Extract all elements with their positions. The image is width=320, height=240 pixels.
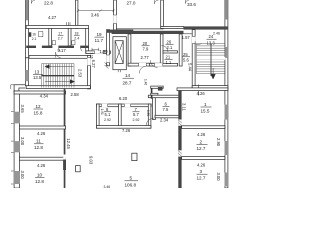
room 20 right wall — [160, 34, 163, 66]
door break corridor west wall — [63, 155, 66, 160]
window room 10 left — [14, 171, 21, 184]
wall right of small rooms row — [86, 28, 89, 53]
door gap room 19 — [95, 51, 104, 54]
wall right of elevator (left wall of room 20) — [128, 34, 131, 66]
rooms 8/7 bottom wall — [97, 126, 151, 129]
wall bottom of room 33.6 thick dark part — [184, 26, 228, 29]
right staircase entry tick below — [198, 85, 200, 96]
door gap small room 1 — [36, 45, 42, 48]
door arc corridor into room 6 — [146, 118, 154, 126]
svg-text:15.8: 15.8 — [34, 110, 43, 115]
svg-text:25: 25 — [183, 52, 188, 57]
svg-text:13.5: 13.5 — [33, 75, 42, 80]
svg-text:11.7: 11.7 — [95, 38, 104, 43]
wall between rooms 27.0 and 33.6 — [161, 0, 164, 26]
wall between rooms 11 and 10 — [19, 157, 65, 160]
room 6 left wall — [153, 95, 156, 119]
window room 2 right — [225, 141, 229, 155]
window room 12 left — [14, 112, 21, 124]
partition between 8 and 7 — [119, 104, 122, 128]
svg-text:27.0: 27.0 — [127, 1, 136, 6]
elevator shaft inner X box — [115, 41, 123, 64]
door gap corridor wall at room 2 — [178, 120, 181, 126]
svg-text:17: 17 — [58, 32, 62, 36]
staircase left: top wall — [29, 56, 91, 59]
svg-text:1.57: 1.57 — [182, 35, 191, 40]
svg-text:20: 20 — [143, 41, 148, 46]
svg-text:4.27: 4.27 — [48, 15, 57, 20]
elevator lobby wall left — [107, 30, 110, 66]
svg-text:12: 12 — [36, 104, 42, 109]
svg-text:16: 16 — [32, 33, 36, 37]
vent ticks on wall top — [67, 22, 71, 25]
tick outside left step — [11, 85, 14, 89]
stair center divider left staircase — [42, 75, 75, 77]
rooms 8 and 7 block: top wall — [97, 104, 152, 107]
svg-text:3.65: 3.65 — [20, 105, 25, 114]
door arc into staircase — [56, 52, 61, 57]
column square in corridor center — [132, 153, 137, 160]
svg-text:5.7: 5.7 — [133, 112, 139, 117]
svg-text:12.8: 12.8 — [34, 145, 43, 150]
wall below room 27 thin top leaf — [116, 28, 163, 30]
hallway wall between hall and right staircase — [192, 30, 195, 91]
room 1 top wall — [177, 88, 228, 91]
corridor east wall (left wall of rooms 1 2 3, dark) — [178, 89, 181, 189]
wall right exterior (hollow) — [225, 0, 228, 188]
rooms 8/7 left wall — [97, 104, 100, 128]
wall between rooms 1 and 2 — [182, 126, 225, 129]
window sill ticks room 10 — [11, 171, 14, 184]
svg-text:1.46: 1.46 — [143, 79, 147, 85]
svg-text:22.8: 22.8 — [44, 0, 53, 5]
svg-text:3.00: 3.00 — [20, 137, 25, 146]
svg-text:11: 11 — [36, 139, 41, 144]
door gap room 7 top — [124, 104, 130, 107]
door tick small room 2 — [58, 48, 60, 51]
svg-text:6.27: 6.27 — [91, 60, 96, 69]
svg-text:14: 14 — [125, 73, 131, 78]
svg-text:2.58: 2.58 — [71, 92, 80, 97]
stair arrow lower flight — [45, 81, 70, 83]
door tick small room 3 — [80, 48, 82, 51]
svg-text:7.9: 7.9 — [143, 46, 149, 51]
svg-text:21: 21 — [166, 54, 171, 59]
staircase left: right wall — [88, 56, 91, 89]
door arc hall into 21 — [150, 60, 157, 67]
svg-text:2.1: 2.1 — [167, 45, 173, 50]
svg-text:6.20: 6.20 — [119, 96, 128, 101]
svg-text:1.16: 1.16 — [89, 52, 93, 58]
small shaft structure in hall — [151, 86, 153, 99]
wall left exterior staircase part — [25, 58, 28, 86]
svg-text:2.90: 2.90 — [216, 138, 221, 147]
right staircase treads — [197, 44, 225, 74]
wall between room 19 and 27.0 — [114, 0, 117, 30]
window sill ticks room 12 — [11, 112, 14, 124]
room 20 bottom wall — [128, 63, 163, 66]
svg-text:19: 19 — [97, 32, 103, 37]
door swing top left room 22.8 — [32, 0, 36, 4]
door gap small room 2 — [52, 45, 58, 48]
staircase left: bottom wall — [26, 86, 90, 89]
fixture small room 2 — [52, 41, 55, 45]
wall below room 19 — [86, 51, 111, 54]
right staircase bottom wall — [192, 86, 228, 89]
svg-text:13.3: 13.3 — [207, 40, 216, 45]
svg-text:10: 10 — [37, 172, 43, 177]
window room 11 left — [14, 141, 21, 152]
partition b — [49, 28, 52, 45]
svg-text:9.03: 9.03 — [89, 156, 94, 165]
svg-text:106.8: 106.8 — [125, 182, 137, 187]
step out ledge at left — [14, 85, 25, 92]
svg-text:2.92: 2.92 — [133, 118, 140, 122]
door gap room 8 top — [102, 104, 108, 107]
door swing room 20 — [139, 66, 146, 73]
room 12 top wall — [14, 91, 66, 94]
window right wall room 33.6 (gray) — [225, 0, 228, 20]
wall between rooms 12 and 11 — [19, 126, 65, 129]
partition c — [68, 28, 71, 45]
wall bottom of room 33.6 thin part — [161, 27, 184, 29]
door gap room 21 — [155, 63, 163, 66]
column square in corridor west — [76, 166, 81, 172]
door opening in wall 19/27 — [113, 15, 116, 24]
wall below room 27 dark bottom leaf — [112, 31, 184, 34]
rooms 26/21 block right wall — [179, 34, 182, 66]
svg-text:5.1: 5.1 — [105, 112, 111, 117]
window sill ticks room 11 — [11, 141, 14, 152]
svg-text:1.90: 1.90 — [99, 49, 108, 54]
dim tick near 1.90 — [92, 48, 99, 51]
svg-text:1.1: 1.1 — [166, 60, 172, 65]
svg-text:28.7: 28.7 — [123, 80, 132, 85]
svg-text:4.26: 4.26 — [197, 91, 206, 96]
svg-text:1.50: 1.50 — [146, 110, 150, 116]
elevator shaft outer — [113, 37, 126, 70]
window staircase left (gray) — [25, 70, 29, 81]
svg-text:7.26: 7.26 — [122, 128, 131, 133]
svg-text:2.92: 2.92 — [104, 118, 111, 122]
right staircase center rail — [197, 57, 226, 60]
right staircase arrow — [211, 68, 215, 79]
window right staircase — [225, 47, 229, 58]
door swing top left room 33.6 — [186, 0, 190, 4]
svg-text:7.5: 7.5 — [163, 107, 169, 112]
bottom wall of small rooms (dark with door gaps) — [26, 46, 88, 48]
room 6 top wall — [148, 95, 180, 98]
elevator X diagonals — [115, 41, 123, 64]
door jamb dark corridor to room 11 — [63, 160, 66, 171]
fixture small room 3 — [72, 41, 75, 45]
svg-text:18: 18 — [75, 32, 79, 36]
svg-text:4.26: 4.26 — [37, 131, 46, 136]
svg-text:4.26: 4.26 — [197, 162, 206, 167]
elevator door tick bottom — [118, 70, 120, 73]
door gap corridor wall at room 3 — [178, 150, 181, 156]
svg-text:15.5: 15.5 — [201, 108, 210, 113]
svg-text:4.34: 4.34 — [40, 93, 49, 98]
door swing top right room 27.0 — [155, 0, 159, 4]
svg-text:2: 2 — [200, 139, 203, 144]
svg-text:2.7: 2.7 — [58, 36, 63, 40]
svg-text:5.17: 5.17 — [58, 48, 67, 53]
fixtures in small room 1 — [28, 32, 31, 37]
svg-text:3: 3 — [200, 169, 203, 174]
svg-text:5.6: 5.6 — [183, 57, 189, 62]
svg-text:2.4: 2.4 — [74, 36, 79, 40]
svg-text:33.6: 33.6 — [187, 2, 196, 7]
stair arrow upper flight — [49, 66, 74, 68]
svg-text:3.00: 3.00 — [216, 173, 221, 182]
door gap right staircase — [192, 37, 196, 44]
svg-text:12.45: 12.45 — [66, 138, 71, 149]
svg-text:24: 24 — [209, 34, 214, 39]
door gap elevator lobby — [106, 55, 110, 63]
svg-text:3.46: 3.46 — [104, 185, 111, 188]
wall left exterior lower (hollow) — [14, 91, 19, 188]
svg-text:4.26: 4.26 — [37, 163, 46, 168]
window room 1 right — [225, 105, 229, 120]
svg-text:5.44: 5.44 — [188, 63, 193, 72]
wall bottom of room 22.8 / top of small rooms — [26, 26, 88, 29]
dimension line 3.46 in room 19 — [77, 9, 115, 13]
svg-text:2.1: 2.1 — [32, 37, 37, 41]
svg-text:12.7: 12.7 — [197, 146, 206, 151]
partition between 26 and 21 — [163, 51, 177, 53]
svg-text:2.34: 2.34 — [160, 118, 169, 123]
svg-text:13: 13 — [35, 69, 40, 74]
door jamb marks below elevator lobby — [105, 63, 109, 69]
bottom wall of room 21 — [150, 63, 178, 66]
svg-text:12.7: 12.7 — [197, 176, 206, 181]
svg-text:12.8: 12.8 — [35, 179, 44, 184]
door gap room 20 bottom — [139, 63, 147, 66]
svg-text:2.46: 2.46 — [213, 32, 220, 36]
svg-text:1.91: 1.91 — [100, 109, 104, 115]
svg-text:3.11: 3.11 — [181, 103, 186, 112]
window left wall room 22.8 (gray) — [25, 0, 28, 20]
svg-text:2.77: 2.77 — [141, 55, 150, 60]
svg-text:3.00: 3.00 — [20, 171, 25, 180]
svg-text:3.46: 3.46 — [91, 13, 100, 18]
svg-text:4.26: 4.26 — [197, 132, 206, 137]
elevator top wall dark — [107, 30, 134, 33]
rooms 8/7 right wall — [148, 104, 151, 128]
stair treads left staircase — [42, 64, 75, 88]
window room 3 right — [225, 173, 229, 187]
wall between rooms 2 and 3 — [182, 157, 225, 160]
room 6 bottom wall — [155, 115, 180, 118]
svg-text:2.53: 2.53 — [78, 69, 83, 78]
door arc room 26 — [162, 46, 169, 53]
wall between rooms 22.8 and 19 — [75, 0, 78, 28]
svg-text:1: 1 — [204, 102, 207, 107]
wall left exterior upper (hollow) — [25, 0, 28, 58]
door arc right staircase — [195, 41, 201, 44]
svg-text:26: 26 — [167, 39, 172, 44]
svg-text:5: 5 — [130, 176, 133, 181]
corridor west wall (right wall of rooms 12 11 10) — [64, 89, 66, 189]
door gap small room 3 — [74, 45, 80, 48]
